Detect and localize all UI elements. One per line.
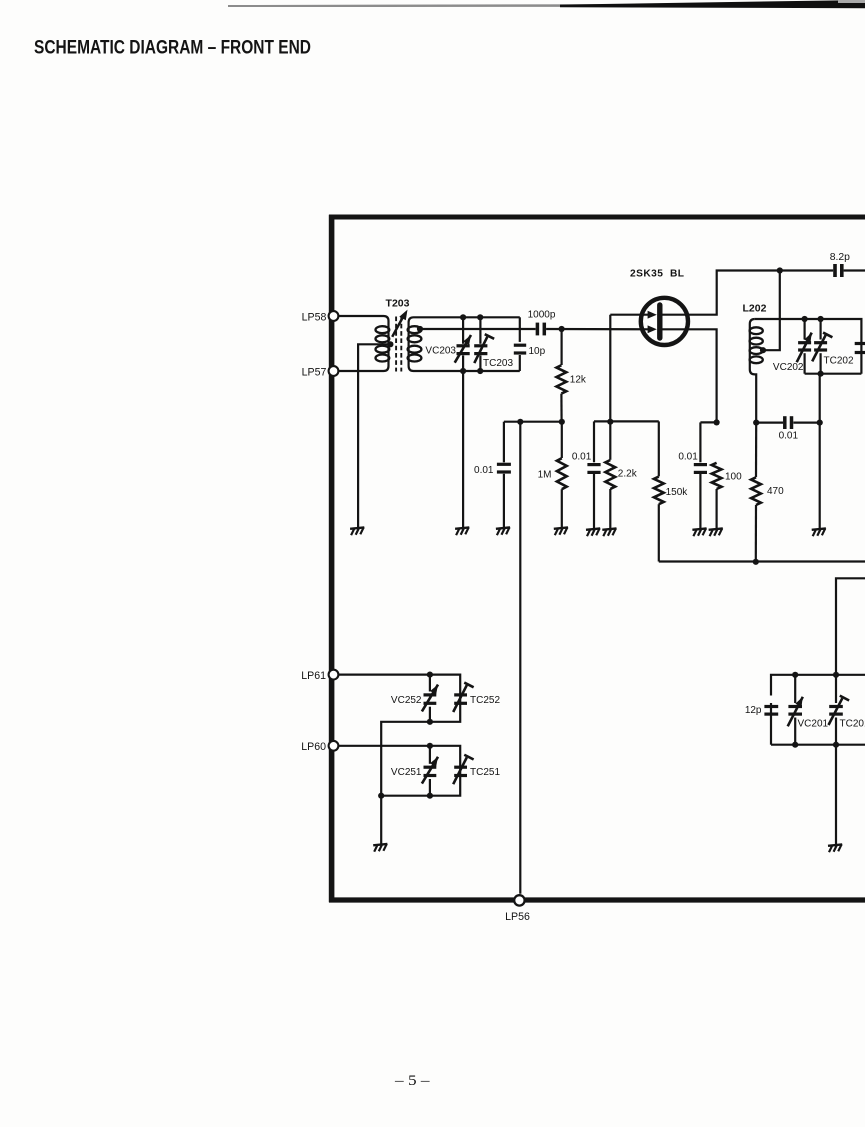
svg-text:0.01: 0.01 (474, 465, 494, 476)
svg-text:VC202: VC202 (773, 362, 804, 373)
svg-text:VC201: VC201 (798, 719, 829, 730)
svg-text:LP56: LP56 (505, 911, 530, 923)
svg-text:– 5 –: – 5 – (394, 1073, 430, 1089)
svg-text:VC252: VC252 (391, 695, 422, 706)
svg-text:LP60: LP60 (301, 741, 326, 753)
svg-text:12p: 12p (745, 705, 762, 716)
svg-text:10p: 10p (529, 346, 546, 357)
svg-text:TC201: TC201 (840, 719, 865, 730)
svg-text:SCHEMATIC DIAGRAM – FRONT END: SCHEMATIC DIAGRAM – FRONT END (34, 37, 311, 58)
svg-text:LP61: LP61 (301, 670, 326, 682)
svg-text:0.01: 0.01 (572, 452, 592, 463)
svg-text:L202: L202 (743, 303, 767, 315)
svg-text:2SK35 BL: 2SK35 BL (630, 269, 684, 280)
svg-text:1M: 1M (538, 469, 552, 480)
svg-text:TC202: TC202 (824, 355, 854, 366)
svg-text:100: 100 (725, 472, 742, 483)
svg-text:8.2p: 8.2p (830, 252, 850, 263)
svg-text:TC252: TC252 (470, 695, 500, 706)
svg-text:12k: 12k (570, 374, 587, 385)
svg-text:470: 470 (767, 486, 784, 497)
svg-text:LP58: LP58 (302, 312, 327, 324)
svg-text:150k: 150k (666, 487, 689, 498)
svg-text:VC251: VC251 (391, 767, 422, 778)
svg-text:TC251: TC251 (470, 767, 500, 778)
svg-text:VC203: VC203 (425, 346, 456, 357)
svg-text:TC203: TC203 (483, 358, 513, 369)
svg-text:T203: T203 (386, 298, 410, 310)
svg-text:0.01: 0.01 (678, 452, 698, 463)
svg-text:1000p: 1000p (528, 310, 556, 321)
svg-text:LP57: LP57 (302, 367, 327, 379)
svg-text:2.2k: 2.2k (618, 468, 638, 479)
svg-text:0.01: 0.01 (779, 431, 799, 442)
